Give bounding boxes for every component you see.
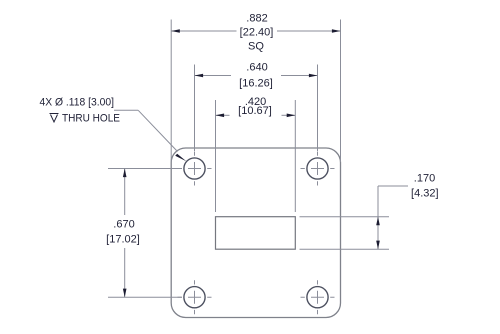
dimension .640 [16.26] extension lines <box>195 65 318 152</box>
leader line from callout to top-left hole <box>114 110 178 151</box>
dimension .420 [10.67] extension lines <box>216 100 296 212</box>
dimension .882 [22.40] SQ extension lines <box>171 20 340 163</box>
svg-text:SQ: SQ <box>248 41 264 53</box>
plate outline <box>171 148 340 318</box>
dimension .170 text <box>411 173 439 200</box>
dimension .170 arrows <box>376 217 380 226</box>
hole callout 4X dia .118 [3.00] THRU HOLE text <box>40 97 121 125</box>
dimension .420 [10.67] dimension line <box>216 114 296 116</box>
dimension .640 text <box>239 62 273 90</box>
svg-text:[4.32]: [4.32] <box>411 188 439 200</box>
dimension .170 [4.32] extension lines <box>300 217 390 250</box>
dimension .640 arrows <box>195 74 204 78</box>
dimension .170 [4.32] dimension line and leader <box>378 186 408 249</box>
svg-text:.640: .640 <box>246 62 267 74</box>
dimension .670 [17.02] extension lines <box>108 169 182 298</box>
svg-text:[22.40]: [22.40] <box>240 27 274 39</box>
svg-text:[17.02]: [17.02] <box>106 234 140 246</box>
hole top-right <box>301 152 335 186</box>
dimension .420 arrows <box>216 114 225 118</box>
dimension .670 arrows <box>123 169 127 178</box>
svg-text:[16.26]: [16.26] <box>239 78 273 90</box>
svg-text:.882: .882 <box>246 13 267 25</box>
dimension .670 text <box>106 219 140 246</box>
svg-text:.170: .170 <box>414 173 435 185</box>
leader arrowhead at hole edge <box>175 154 186 161</box>
svg-text:THRU HOLE: THRU HOLE <box>62 113 120 125</box>
svg-text:.670: .670 <box>113 219 134 231</box>
hole bottom-left <box>178 280 212 314</box>
hole top-left <box>178 152 212 186</box>
dimension .640 [16.26] dimension line <box>195 75 318 77</box>
svg-text:4X Ø .118 [3.00]: 4X Ø .118 [3.00] <box>40 97 115 109</box>
waveguide aperture rectangle <box>216 217 296 250</box>
svg-text:[10.67]: [10.67] <box>238 105 272 117</box>
dimension .882 text <box>240 13 274 53</box>
dimension .882 [22.40] SQ dimension line <box>171 30 340 32</box>
dimension .882 arrows <box>171 29 180 33</box>
countersink / depth symbol before THRU HOLE <box>50 114 59 123</box>
hole bottom-right <box>301 280 335 314</box>
dimension .670 [17.02] dimension line <box>124 169 126 298</box>
dimension .420 text <box>238 96 272 117</box>
